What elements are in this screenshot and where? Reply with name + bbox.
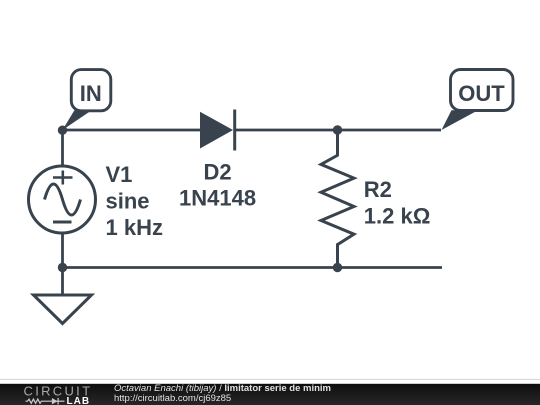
svg-text:V1: V1 bbox=[106, 162, 133, 187]
voltage source V1 minus sign bbox=[53, 221, 72, 224]
svg-text:IN: IN bbox=[80, 81, 102, 106]
wire V1 top lead bbox=[61, 130, 64, 167]
voltage source V1 body circle bbox=[29, 166, 96, 233]
logo resistor squiggle bbox=[26, 399, 52, 403]
node IN flag box bbox=[71, 70, 111, 111]
wire diode cathode to OUT bbox=[234, 129, 441, 132]
wire ground lead bbox=[61, 268, 64, 297]
diode D2 cathode bar bbox=[233, 110, 236, 151]
node R2 bottom junction bbox=[333, 263, 342, 272]
node ground junction bbox=[58, 263, 67, 272]
svg-text:1N4148: 1N4148 bbox=[179, 186, 256, 211]
node OUT flag box bbox=[451, 70, 514, 111]
svg-text:D2: D2 bbox=[204, 159, 232, 184]
svg-text:OUT: OUT bbox=[458, 81, 505, 106]
wire V1 bottom lead bbox=[61, 232, 64, 268]
wire top rail IN node to diode anode bbox=[63, 129, 201, 132]
voltage source V1 sine symbol bbox=[45, 184, 81, 215]
node IN junction bbox=[58, 126, 67, 135]
voltage source V1 plus sign bbox=[53, 176, 73, 179]
svg-text:sine: sine bbox=[106, 188, 150, 213]
logo diode triangle bbox=[52, 398, 58, 404]
diode D2 anode triangle bbox=[200, 112, 233, 149]
logo diode bar bbox=[57, 398, 59, 405]
node OUT flag pointer bbox=[442, 110, 479, 130]
svg-text:http://circuitlab.com/cj69z85: http://circuitlab.com/cj69z85 bbox=[114, 393, 231, 404]
svg-text:1.2 kΩ: 1.2 kΩ bbox=[364, 204, 431, 229]
node R2 top junction bbox=[333, 125, 342, 134]
svg-text:LAB: LAB bbox=[67, 396, 91, 405]
node IN flag pointer bbox=[63, 110, 92, 130]
wire bottom rail bbox=[63, 266, 443, 269]
resistor R2 bbox=[321, 130, 354, 268]
svg-text:1 kHz: 1 kHz bbox=[106, 215, 163, 240]
footer bar bbox=[0, 384, 540, 405]
logo wire segment bbox=[52, 400, 65, 402]
footer divider hairline bbox=[0, 378, 540, 380]
svg-text:R2: R2 bbox=[364, 177, 392, 202]
ground bbox=[34, 295, 92, 324]
